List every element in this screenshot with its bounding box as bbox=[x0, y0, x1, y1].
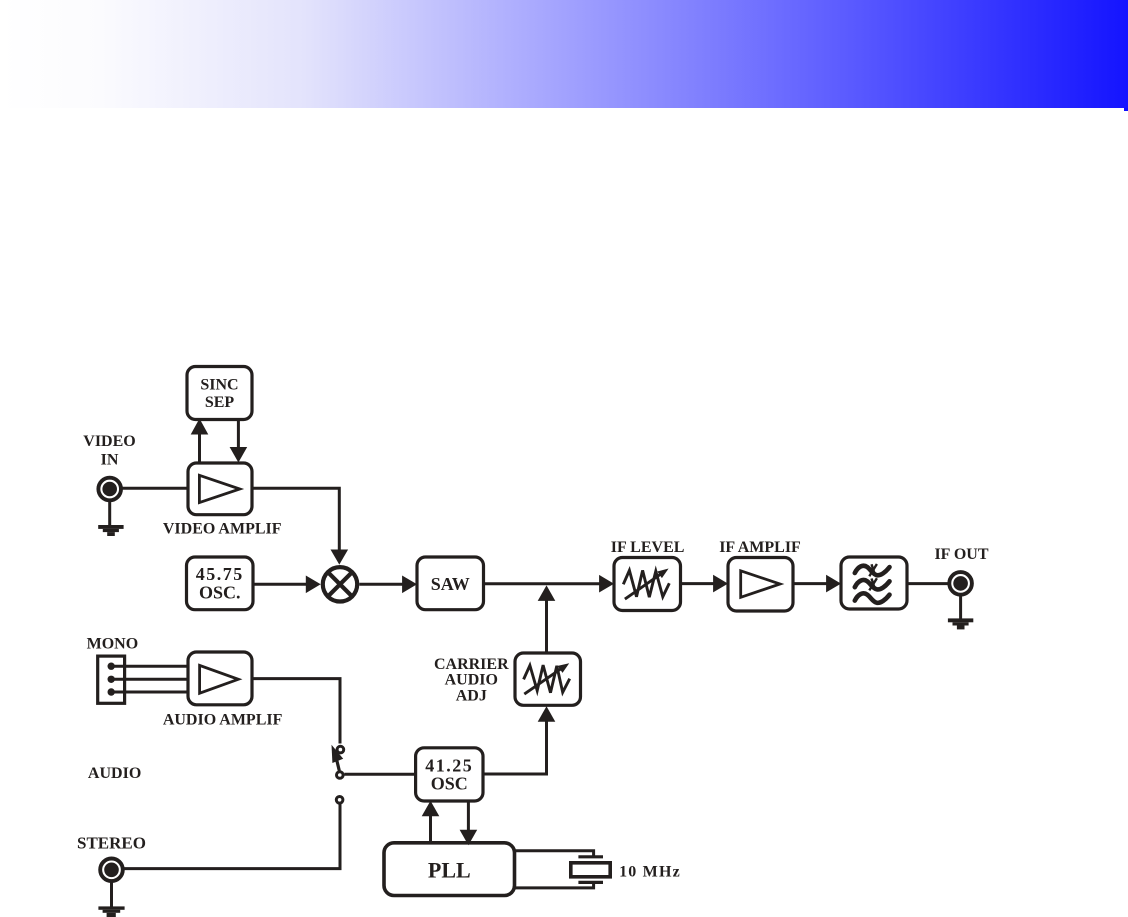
mixer M1 (circle with X) bbox=[323, 567, 357, 601]
ground (under IF OUT) bbox=[948, 595, 973, 629]
wire/arrow 41.25 OSC to carrier adj bbox=[483, 706, 555, 774]
node VIDEO IN label bbox=[83, 433, 135, 468]
wire/arrow SINC SEP down to video amp bbox=[230, 420, 248, 463]
header bar right notch bbox=[1124, 108, 1128, 111]
connector J3 MONO (3-pin header) bbox=[98, 656, 125, 703]
wire/arrow PLL up to 41.25 OSC bbox=[422, 801, 440, 843]
svg-text:ADJ: ADJ bbox=[456, 688, 487, 705]
ground (under STEREO) bbox=[98, 881, 124, 917]
wire STEREO to switch lower contact bbox=[123, 804, 340, 868]
attenuator block CARRIER AUDIO ADJ bbox=[515, 653, 581, 705]
svg-text:AUDIO: AUDIO bbox=[88, 765, 141, 782]
svg-text:STEREO: STEREO bbox=[77, 834, 146, 853]
wire/arrow video amp up to SINC SEP bbox=[191, 419, 209, 464]
block SINC SEP bbox=[187, 367, 252, 420]
attenuator block IF LEVEL bbox=[614, 558, 681, 611]
svg-text:SEP: SEP bbox=[205, 394, 235, 411]
svg-text:SAW: SAW bbox=[431, 574, 470, 594]
connector J4 STEREO bbox=[100, 859, 123, 882]
header gradient bar bbox=[0, 0, 1128, 108]
oscillator block 41.25 OSC bbox=[416, 748, 483, 801]
oscillator block 45.75 OSC. bbox=[187, 557, 254, 610]
op-amp block IF AMPLIF bbox=[728, 558, 793, 612]
wires MONO to audio amplifier (3 lines) bbox=[111, 666, 189, 692]
block PLL U1 bbox=[384, 843, 515, 896]
svg-text:IF AMPLIF: IF AMPLIF bbox=[719, 539, 801, 556]
filter block SAW bbox=[417, 557, 484, 610]
wire video amp to mixer (with corner and down arrow) bbox=[252, 488, 348, 564]
svg-text:IN: IN bbox=[101, 452, 119, 469]
svg-text:OSC.: OSC. bbox=[199, 582, 241, 602]
wire switch common to 41.25 OSC bbox=[344, 773, 417, 776]
svg-text:VIDEO: VIDEO bbox=[83, 433, 135, 450]
svg-text:41.25: 41.25 bbox=[425, 755, 473, 775]
switch SW1 (selector) bbox=[332, 745, 344, 803]
svg-text:45.75: 45.75 bbox=[196, 564, 244, 584]
wire/arrow SAW to IF LEVEL bbox=[484, 575, 615, 593]
wire filter to IF OUT bbox=[907, 582, 949, 585]
svg-text:CARRIER: CARRIER bbox=[434, 656, 509, 673]
op-amp block AUDIO AMPLIF bbox=[188, 652, 252, 705]
wire/arrow 45.75 OSC to mixer bbox=[253, 576, 321, 594]
svg-text:MONO: MONO bbox=[87, 636, 139, 653]
wire/arrow IF LEVEL to IF AMPLIF bbox=[681, 575, 729, 593]
svg-text:AUDIO AMPLIF: AUDIO AMPLIF bbox=[163, 712, 283, 729]
label CARRIER AUDIO ADJ bbox=[434, 656, 509, 705]
svg-text:10 MHz: 10 MHz bbox=[619, 863, 681, 880]
svg-text:OSC: OSC bbox=[431, 774, 468, 794]
wire/arrow IF AMPLIF to output filter bbox=[793, 575, 841, 593]
svg-text:IF LEVEL: IF LEVEL bbox=[611, 539, 685, 556]
op-amp block VIDEO AMPLIF bbox=[188, 463, 252, 515]
wire VIDEO IN to video amplifier bbox=[121, 487, 189, 490]
filter block (wavy lines) bbox=[841, 557, 907, 609]
connector J1 VIDEO IN bbox=[98, 478, 121, 501]
wire/arrow mixer to SAW bbox=[359, 576, 417, 594]
connector J2 IF OUT bbox=[949, 572, 972, 595]
svg-text:AUDIO: AUDIO bbox=[445, 672, 498, 689]
svg-text:IF OUT: IF OUT bbox=[934, 546, 988, 563]
wire audio amp to switch upper contact bbox=[252, 679, 340, 744]
wire/arrow carrier adj up to main line (junction) bbox=[538, 585, 556, 653]
svg-text:PLL: PLL bbox=[428, 857, 471, 882]
crystal X1 (10 MHz) bbox=[571, 857, 610, 883]
crystal X1 wires from PLL bbox=[515, 851, 594, 888]
svg-text:VIDEO AMPLIF: VIDEO AMPLIF bbox=[163, 521, 282, 538]
wire/arrow 41.25 OSC down to PLL bbox=[460, 801, 478, 845]
ground (under VIDEO IN) bbox=[98, 500, 123, 536]
svg-text:SINC: SINC bbox=[200, 377, 238, 394]
